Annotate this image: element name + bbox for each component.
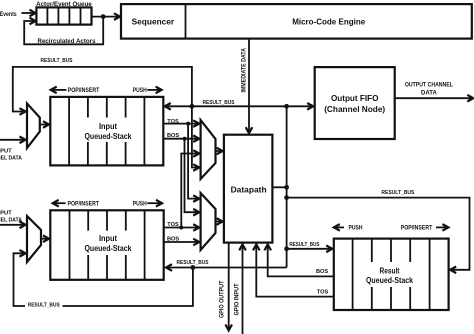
wire events input arrow <box>22 12 35 14</box>
mux M1C (operand A select) <box>201 120 216 179</box>
svg-text:POP/INSERT: POP/INSERT <box>68 202 100 208</box>
wire TOS1 down to mux M2C <box>188 124 198 199</box>
svg-text:Queued-Stack: Queued-Stack <box>366 275 413 285</box>
svg-text:GPIO INPUT: GPIO INPUT <box>234 283 240 315</box>
output fifo box <box>315 67 395 139</box>
wire stack2 feedback loop <box>14 253 193 306</box>
svg-text:TOS: TOS <box>317 289 329 295</box>
svg-text:Result: Result <box>380 266 400 276</box>
svg-text:IMMEDIATE DATA: IMMEDIATE DATA <box>241 47 247 92</box>
datapath box <box>224 135 273 243</box>
svg-text:POP/INSERT: POP/INSERT <box>401 226 433 232</box>
svg-text:INPUT: INPUT <box>0 148 12 154</box>
svg-text:Actor/Event Queue: Actor/Event Queue <box>36 2 92 8</box>
svg-text:Input: Input <box>99 233 117 243</box>
svg-text:POP/INSERT: POP/INSERT <box>68 88 100 94</box>
node junction result_bus / stack1 feedback <box>190 104 195 109</box>
svg-text:Output FIFO: Output FIFO <box>331 93 379 103</box>
svg-text:PUSH: PUSH <box>349 226 363 232</box>
svg-text:OUTPUT CHANNEL: OUTPUT CHANNEL <box>405 83 453 89</box>
wire queue output to sequencer <box>92 16 120 18</box>
actor/event queue box <box>36 7 91 24</box>
node junction result_bus / right bus <box>284 104 289 109</box>
svg-text:BOS: BOS <box>316 269 328 275</box>
svg-text:DATA: DATA <box>421 91 437 97</box>
wire result_bus into result stack left <box>287 248 332 250</box>
svg-text:Queued-Stack: Queued-Stack <box>85 131 132 141</box>
wire GPIO output <box>228 243 230 330</box>
wire BOS2 <box>164 241 199 243</box>
mux M1 (stack1 input select) <box>27 104 40 149</box>
wire result_bus down to mux M1C <box>192 106 198 167</box>
svg-text:GPIO OUTPUT: GPIO OUTPUT <box>219 280 225 318</box>
wire result_bus main horizontal left arrow into stack1 <box>166 105 287 107</box>
mux M2 (stack2 input select) <box>27 216 41 262</box>
label RESULT_BUS stack2 loop <box>25 301 63 309</box>
wire result_bus right loop to result stack right <box>287 198 470 270</box>
svg-text:Events: Events <box>0 12 17 18</box>
svg-text:BOS: BOS <box>167 133 179 139</box>
svg-text:CHANNEL DATA: CHANNEL DATA <box>0 155 22 161</box>
svg-text:INPUT: INPUT <box>0 210 12 216</box>
wire mux M2 output <box>41 238 48 240</box>
label PUSH result stack <box>335 226 344 228</box>
svg-text:Datapath: Datapath <box>231 185 267 195</box>
wire result stack TOS to datapath <box>256 245 334 296</box>
svg-text:TOS: TOS <box>167 222 179 228</box>
node junction stack2 feedback <box>191 265 196 270</box>
wire mux M2C output <box>216 221 222 223</box>
svg-text:Input: Input <box>99 121 117 131</box>
wire recirculation loop <box>24 17 103 45</box>
svg-text:RESULT_BUS: RESULT_BUS <box>28 303 60 309</box>
svg-text:Sequencer: Sequencer <box>132 16 175 26</box>
wire result_bus return to stack2 <box>167 267 287 269</box>
label POP/INSERT stack1 <box>52 89 67 91</box>
wire result stack BOS to datapath <box>268 245 334 276</box>
svg-text:RESULT_BUS: RESULT_BUS <box>203 100 235 106</box>
svg-text:RESULT_BUS: RESULT_BUS <box>41 58 73 64</box>
svg-text:RESULT_BUS: RESULT_BUS <box>289 242 319 248</box>
mux M2C (operand B select) <box>201 193 216 250</box>
svg-text:(Channel Node): (Channel Node) <box>324 104 385 114</box>
svg-text:PUSH: PUSH <box>133 202 147 208</box>
wire TOS2 up to mux M1C <box>181 154 198 228</box>
wire result_bus into output fifo <box>287 105 313 107</box>
wire mux M1 output <box>40 124 48 126</box>
wire TOS2 <box>164 227 199 229</box>
wire GPIO input <box>242 245 244 334</box>
sequencer box <box>121 4 472 39</box>
wire output channel data <box>395 97 473 99</box>
wire TOS1 <box>163 123 198 125</box>
svg-text:BOS: BOS <box>167 237 179 243</box>
node queue output junction <box>101 14 106 19</box>
svg-text:Micro-Code Engine: Micro-Code Engine <box>292 16 365 26</box>
wire mux M1C output <box>216 150 222 152</box>
svg-text:Recirculated Actors: Recirculated Actors <box>38 39 97 45</box>
label POP/INSERT stack2 <box>54 202 66 204</box>
svg-text:Queued-Stack: Queued-Stack <box>85 243 132 253</box>
wire input channel data 1 <box>0 139 25 141</box>
wire right result bus vertical <box>286 106 288 267</box>
svg-text:PUSH: PUSH <box>133 88 147 94</box>
input queued-stack 2 box <box>50 210 163 279</box>
result queued-stack box <box>334 239 449 310</box>
wire datapath to bus <box>272 186 286 188</box>
wire BOS1 <box>163 138 198 140</box>
wire input channel data 2 <box>0 224 25 226</box>
wire stack1 feedback loop <box>13 67 192 112</box>
wire immediate data <box>248 39 250 133</box>
wire BOS1 down to mux M2C <box>185 139 199 213</box>
svg-text:CHANNEL DATA: CHANNEL DATA <box>0 217 22 223</box>
svg-text:TOS: TOS <box>167 119 179 125</box>
input queued-stack 1 box <box>50 97 163 165</box>
svg-text:RESULT_BUS: RESULT_BUS <box>381 190 414 196</box>
